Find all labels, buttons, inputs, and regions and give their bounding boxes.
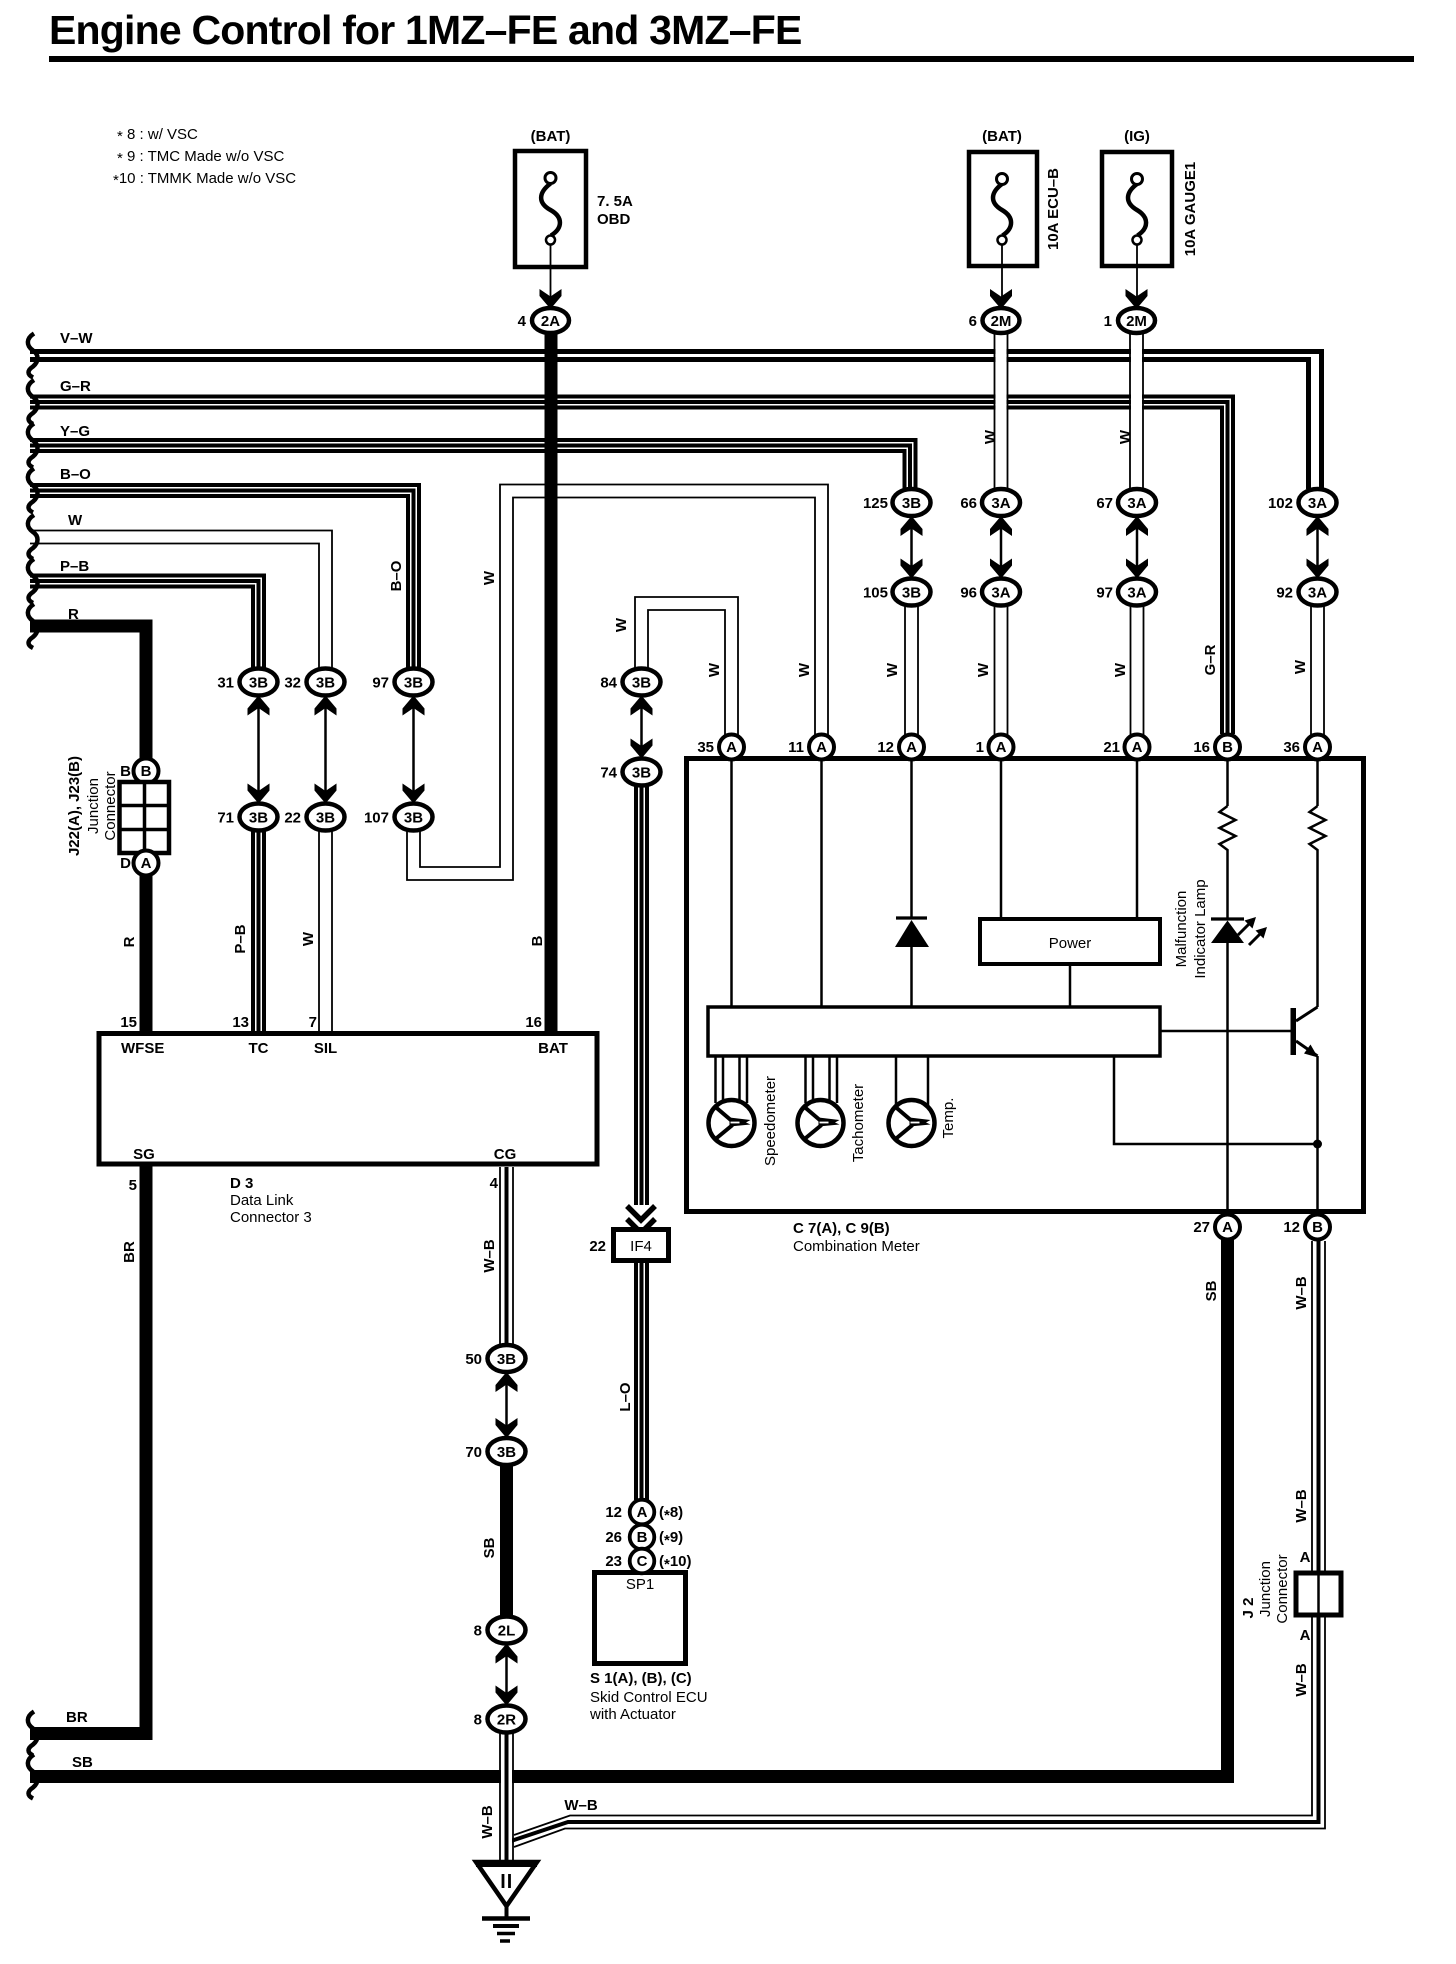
svg-text:W–B: W–B <box>1293 1489 1310 1523</box>
svg-text:Combination Meter: Combination Meter <box>793 1238 920 1255</box>
svg-text:A: A <box>996 739 1007 756</box>
wire L-O triple 74 to IF4 <box>636 786 647 1205</box>
svg-text:Power: Power <box>1049 935 1092 952</box>
wire W-B CG to 50 <box>500 1167 513 1346</box>
svg-text:3B: 3B <box>404 675 423 692</box>
svg-text:3B: 3B <box>316 810 335 827</box>
wire 11A to bus <box>820 761 823 1007</box>
svg-text:8: 8 <box>474 1623 482 1640</box>
wire SB thick mid column <box>500 1462 513 1619</box>
svg-text:6: 6 <box>969 313 977 330</box>
svg-text:3B: 3B <box>497 1444 516 1461</box>
connector pair 102/92 3A <box>1268 489 1337 606</box>
svg-text:Junction: Junction <box>1257 1561 1274 1617</box>
svg-text:SB: SB <box>72 1754 93 1771</box>
svg-text:A: A <box>906 739 917 756</box>
svg-text:BR: BR <box>121 1241 138 1263</box>
wire LED to 27A <box>1226 943 1229 1214</box>
svg-text:3B: 3B <box>316 675 335 692</box>
meter connector 12 B <box>1283 1215 1330 1240</box>
svg-text:B: B <box>141 763 152 780</box>
svg-text:J 2: J 2 <box>1240 1598 1257 1619</box>
svg-text:W–B: W–B <box>479 1805 496 1839</box>
connector pair 31/71 3B <box>217 669 277 831</box>
fuse 7.5A OBD <box>515 151 586 309</box>
wire W 97-3A to 21A <box>1131 605 1144 736</box>
svg-text:3B: 3B <box>404 810 423 827</box>
svg-text:P–B: P–B <box>232 924 249 953</box>
svg-text:Data Link: Data Link <box>230 1192 294 1209</box>
wire W to SIL <box>30 531 332 673</box>
svg-text:A: A <box>637 1504 648 1521</box>
svg-text:BAT: BAT <box>538 1040 568 1057</box>
svg-text:Junction: Junction <box>85 778 102 834</box>
wire W 96 to 1A <box>995 605 1008 736</box>
wire W 1-2M to 67-3A <box>1130 332 1143 491</box>
svg-text:3A: 3A <box>1127 585 1146 602</box>
svg-text:W: W <box>1117 429 1134 444</box>
wire W 92 to 36A <box>1311 605 1324 736</box>
svg-text:BR: BR <box>66 1709 88 1726</box>
svg-text:W: W <box>300 931 317 946</box>
svg-text:92: 92 <box>1276 585 1293 602</box>
svg-text:W–B: W–B <box>564 1797 598 1814</box>
svg-text:(BAT): (BAT) <box>531 128 571 145</box>
svg-text:31: 31 <box>217 675 234 692</box>
svg-text:10A GAUGE1: 10A GAUGE1 <box>1182 162 1199 256</box>
svg-text:V–W: V–W <box>60 330 93 347</box>
svg-text:IF4: IF4 <box>630 1238 652 1255</box>
skid ECU connector 26 B <box>605 1525 683 1550</box>
svg-text:12: 12 <box>605 1504 622 1521</box>
LED malfunction indicator lamp <box>1211 917 1267 945</box>
wire G-R <box>30 397 1233 735</box>
speedometer gauge <box>709 1100 755 1146</box>
svg-text:D: D <box>120 855 131 872</box>
connector 4 2A <box>518 308 569 333</box>
wire 1A to power <box>1000 761 1003 919</box>
wire W-B 2R to ground <box>500 1733 513 1863</box>
svg-text:W: W <box>884 662 901 677</box>
svg-text:A: A <box>1132 739 1143 756</box>
svg-text:50: 50 <box>465 1351 482 1368</box>
svg-text:2L: 2L <box>498 1623 516 1640</box>
wire B-O <box>30 485 419 670</box>
svg-text:B: B <box>529 935 546 946</box>
connector pair 67/97 3A <box>1096 489 1156 606</box>
svg-text:107: 107 <box>364 810 389 827</box>
svg-text:8: 8 <box>474 1712 482 1729</box>
svg-text:11: 11 <box>788 739 804 756</box>
resistor transistor <box>1310 806 1326 852</box>
fuse 10A ECU-B <box>969 152 1037 309</box>
svg-text:J22(A), J23(B): J22(A), J23(B) <box>66 756 83 856</box>
svg-text:Speedometer: Speedometer <box>762 1076 779 1166</box>
wire BR thick <box>30 1164 146 1734</box>
junction connector J2 <box>1240 1554 1341 1623</box>
wire 21A to power <box>1136 761 1139 919</box>
svg-text:WFSE: WFSE <box>121 1040 164 1057</box>
svg-text:3B: 3B <box>632 675 651 692</box>
svg-text:C: C <box>637 1553 648 1570</box>
svg-text:A: A <box>726 739 737 756</box>
wire B thick 2A to BAT <box>545 331 558 1034</box>
squiggle B-O <box>28 469 38 513</box>
wire power to bus <box>1069 964 1072 1007</box>
svg-text:TC: TC <box>249 1040 269 1057</box>
skid ECU connector 23 C <box>605 1549 691 1574</box>
bus bar <box>708 1007 1160 1056</box>
temp feed wires <box>896 1056 928 1110</box>
tachometer gauge <box>798 1100 844 1146</box>
svg-text:W: W <box>796 662 813 677</box>
wire Y-G <box>30 440 916 490</box>
svg-text:2R: 2R <box>497 1712 516 1729</box>
svg-text:22: 22 <box>284 810 301 827</box>
svg-text:A: A <box>1300 1627 1311 1644</box>
wire W 22 to SIL <box>319 830 332 1034</box>
svg-text:B: B <box>120 763 131 780</box>
squiggle W <box>28 515 38 559</box>
svg-text:4: 4 <box>490 1175 499 1192</box>
meter connector 1 A <box>976 735 1014 760</box>
wire diode to bus <box>910 947 913 1007</box>
svg-text:3A: 3A <box>1308 585 1327 602</box>
svg-text:35: 35 <box>697 739 714 756</box>
wire emitter down <box>1316 1056 1319 1214</box>
svg-text:10A ECU–B: 10A ECU–B <box>1045 168 1062 250</box>
svg-text:125: 125 <box>863 495 888 512</box>
squiggle P-B <box>28 559 38 603</box>
svg-text:* 8 : w/ VSC: * 8 : w/ VSC <box>117 126 198 145</box>
svg-text:23: 23 <box>605 1553 622 1570</box>
svg-text:W: W <box>1112 662 1129 677</box>
connector 1 2M <box>1104 308 1155 333</box>
svg-text:W: W <box>481 570 498 585</box>
svg-text:3A: 3A <box>1127 495 1146 512</box>
meter connector 27 A <box>1193 1215 1240 1240</box>
wire 35A to bus <box>730 761 733 1007</box>
svg-text:D 3: D 3 <box>230 1175 253 1192</box>
svg-text:W: W <box>706 662 723 677</box>
svg-text:1: 1 <box>976 739 984 756</box>
svg-text:A: A <box>1222 1219 1233 1236</box>
svg-text:SB: SB <box>1203 1280 1220 1301</box>
svg-text:1: 1 <box>1104 313 1112 330</box>
svg-text:32: 32 <box>284 675 301 692</box>
diode <box>896 916 927 919</box>
svg-text:12: 12 <box>877 739 894 756</box>
connector pair 2L/2R <box>474 1617 526 1733</box>
svg-text:(IG): (IG) <box>1124 128 1150 145</box>
svg-text:2M: 2M <box>991 313 1012 330</box>
svg-text:Connector 3: Connector 3 <box>230 1209 312 1226</box>
svg-text:Skid Control ECU: Skid Control ECU <box>590 1689 708 1706</box>
svg-text:70: 70 <box>465 1444 482 1461</box>
svg-text:97: 97 <box>1096 585 1113 602</box>
squiggle BR <box>28 1712 38 1756</box>
svg-text:7. 5A: 7. 5A <box>597 193 633 210</box>
svg-text:with Actuator: with Actuator <box>589 1706 676 1723</box>
skid control ECU SP1 box <box>595 1573 686 1664</box>
svg-text:W: W <box>1292 659 1309 674</box>
connector pair 32/22 3B <box>284 669 344 831</box>
wire R thick <box>30 626 146 760</box>
svg-text:3B: 3B <box>497 1351 516 1368</box>
wire resistor to LED <box>1226 852 1229 919</box>
meter connector 21 A <box>1103 735 1149 760</box>
svg-text:C 7(A), C 9(B): C 7(A), C 9(B) <box>793 1220 890 1237</box>
squiggle SB <box>28 1755 38 1799</box>
wire 36A to resistor <box>1316 761 1319 806</box>
svg-text:3B: 3B <box>632 765 651 782</box>
svg-text:27: 27 <box>1193 1219 1210 1236</box>
svg-text:SB: SB <box>481 1537 498 1558</box>
svg-text:SIL: SIL <box>314 1040 337 1057</box>
junction block IF4 <box>589 1230 668 1261</box>
wire W loop 84 to 35A <box>635 597 738 736</box>
svg-text:B–O: B–O <box>60 466 91 483</box>
svg-text:CG: CG <box>494 1146 517 1163</box>
resistor MIL <box>1220 806 1236 852</box>
svg-text:Engine Control for 1MZ–FE and: Engine Control for 1MZ–FE and 3MZ–FE <box>49 7 802 53</box>
svg-text:12: 12 <box>1283 1219 1300 1236</box>
wire base to bus <box>1160 1030 1291 1033</box>
svg-text:Malfunction: Malfunction <box>1173 891 1190 968</box>
svg-text:3B: 3B <box>902 585 921 602</box>
title rule <box>49 56 1414 62</box>
svg-text:B: B <box>1312 1219 1323 1236</box>
data link connector D3 box <box>99 1034 597 1165</box>
svg-text:SG: SG <box>133 1146 155 1163</box>
meter connector 36 A <box>1283 735 1330 760</box>
svg-text:71: 71 <box>217 810 234 827</box>
svg-text:SP1: SP1 <box>626 1576 654 1593</box>
svg-text:W–B: W–B <box>1293 1663 1310 1697</box>
svg-text:R: R <box>68 606 79 623</box>
connector pair 66/96 3A <box>960 489 1020 606</box>
wire W 105 to 12A <box>905 605 918 736</box>
svg-text:96: 96 <box>960 585 977 602</box>
wire 12A to diode <box>910 761 913 918</box>
svg-text:S 1(A), (B), (C): S 1(A), (B), (C) <box>590 1670 692 1687</box>
wire W-B from 12B via J2 <box>511 1241 1325 1847</box>
svg-text:B: B <box>637 1529 648 1546</box>
svg-text:3A: 3A <box>1308 495 1327 512</box>
svg-text:G–R: G–R <box>1202 644 1219 675</box>
power box <box>980 919 1160 964</box>
svg-text:W: W <box>68 512 83 529</box>
svg-text:4: 4 <box>518 313 527 330</box>
squiggle V-W <box>28 334 38 378</box>
ground symbol <box>476 1862 537 1941</box>
wire P-B <box>30 576 264 671</box>
junction dot <box>1313 1140 1322 1149</box>
svg-text:A: A <box>1300 1549 1311 1566</box>
fuse 10A GAUGE1 <box>1102 152 1172 309</box>
svg-text:W–B: W–B <box>1293 1276 1310 1310</box>
combination meter box C7/C9 <box>687 759 1364 1212</box>
svg-text:66: 66 <box>960 495 977 512</box>
svg-text:*10 : TMMK Made w/o VSC: *10 : TMMK Made w/o VSC <box>113 170 296 189</box>
speedometer feed wires <box>716 1056 748 1105</box>
meter connector 16 B <box>1193 735 1240 760</box>
meter connector 12 A <box>877 735 924 760</box>
connector 6 2M <box>969 308 1020 333</box>
skid ECU connector 12 A <box>605 1500 683 1525</box>
svg-text:R: R <box>121 936 138 947</box>
wire W 6-2M to 66-3A <box>995 332 1008 491</box>
svg-text:67: 67 <box>1096 495 1113 512</box>
junction connector J22/J23 <box>66 756 169 876</box>
svg-text:22: 22 <box>589 1238 606 1255</box>
svg-text:3A: 3A <box>991 495 1010 512</box>
svg-text:A: A <box>141 855 152 872</box>
svg-text:W–B: W–B <box>481 1239 498 1273</box>
svg-text:B: B <box>1222 739 1233 756</box>
svg-text:84: 84 <box>600 675 617 692</box>
meter connector 35 A <box>697 735 744 760</box>
svg-text:105: 105 <box>863 585 888 602</box>
svg-text:L–O: L–O <box>617 1382 634 1412</box>
svg-text:W: W <box>613 617 630 632</box>
svg-text:74: 74 <box>600 765 617 782</box>
wire L-O triple IF4 to SP1 <box>636 1263 647 1500</box>
svg-text:* 9 : TMC Made w/o VSC: * 9 : TMC Made w/o VSC <box>117 148 284 167</box>
svg-text:A: A <box>1312 739 1323 756</box>
wire R thick below J22 <box>140 874 153 1034</box>
svg-text:26: 26 <box>605 1529 622 1546</box>
svg-text:21: 21 <box>1103 739 1120 756</box>
svg-text:97: 97 <box>372 675 389 692</box>
svg-text:Tachometer: Tachometer <box>850 1084 867 1162</box>
svg-text:Temp.: Temp. <box>940 1098 957 1139</box>
squiggle R <box>28 604 38 648</box>
svg-text:3A: 3A <box>991 585 1010 602</box>
squiggle Y-G <box>28 424 38 468</box>
squiggle G-R <box>28 380 38 424</box>
svg-text:3B: 3B <box>902 495 921 512</box>
svg-text:(BAT): (BAT) <box>982 128 1022 145</box>
tachometer feed wires <box>806 1056 838 1105</box>
svg-text:5: 5 <box>129 1177 137 1194</box>
svg-text:W: W <box>975 662 992 677</box>
connector pair 50/70 3B <box>465 1345 525 1465</box>
arrow into IF4 <box>627 1206 655 1233</box>
svg-text:Connector: Connector <box>1274 1554 1291 1623</box>
wire W loop 107 to 11A <box>407 485 828 881</box>
svg-text:16: 16 <box>1193 739 1210 756</box>
wire bus stub down <box>1114 1056 1318 1144</box>
svg-text:Y–G: Y–G <box>60 423 90 440</box>
wire V-W <box>30 352 1322 490</box>
meter connector 11 A <box>788 735 834 760</box>
svg-text:7: 7 <box>309 1014 317 1031</box>
svg-text:16: 16 <box>525 1014 542 1031</box>
svg-text:13: 13 <box>232 1014 249 1031</box>
svg-text:A: A <box>816 739 827 756</box>
connector pair 84/74 3B <box>600 669 660 786</box>
svg-text:102: 102 <box>1268 495 1293 512</box>
svg-text:G–R: G–R <box>60 378 91 395</box>
svg-text:2A: 2A <box>541 313 560 330</box>
wire SB thick main <box>30 1239 1228 1777</box>
svg-text:3B: 3B <box>249 810 268 827</box>
svg-text:2M: 2M <box>1126 313 1147 330</box>
svg-text:W: W <box>982 429 999 444</box>
connector pair 125/105 3B <box>863 489 931 606</box>
svg-text:3B: 3B <box>249 675 268 692</box>
wire resistor to collector <box>1316 852 1319 1007</box>
svg-text:Indicator Lamp: Indicator Lamp <box>1192 879 1209 978</box>
svg-text:B–O: B–O <box>388 560 405 591</box>
svg-text:15: 15 <box>120 1014 137 1031</box>
svg-text:P–B: P–B <box>60 558 89 575</box>
wire P-B 71 to TC <box>253 830 264 1034</box>
wire 16B to resistor <box>1226 761 1229 806</box>
connector pair 97/107 3B <box>364 669 433 831</box>
svg-text:36: 36 <box>1283 739 1300 756</box>
transistor <box>1291 1007 1319 1058</box>
svg-text:Connector: Connector <box>102 771 119 840</box>
temp gauge <box>889 1100 935 1146</box>
svg-text:OBD: OBD <box>597 211 631 228</box>
